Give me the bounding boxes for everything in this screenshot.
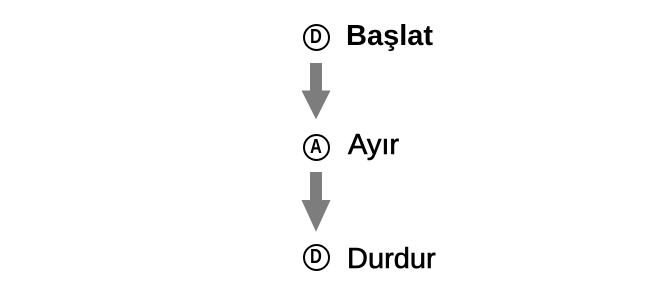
node D2 (Durdur step circle-D symbol): [303, 244, 330, 271]
arrow 2 (Ayır → Durdur): [301, 172, 331, 232]
label Durdur: [347, 245, 436, 274]
label Başlat: [346, 22, 433, 51]
node D1 (Başlat step circle-D symbol): [303, 24, 330, 51]
label Ayır: [348, 131, 399, 160]
node A (Ayır step circle-A symbol): [303, 134, 330, 161]
arrow 1 (Başlat → Ayır): [301, 63, 331, 120]
